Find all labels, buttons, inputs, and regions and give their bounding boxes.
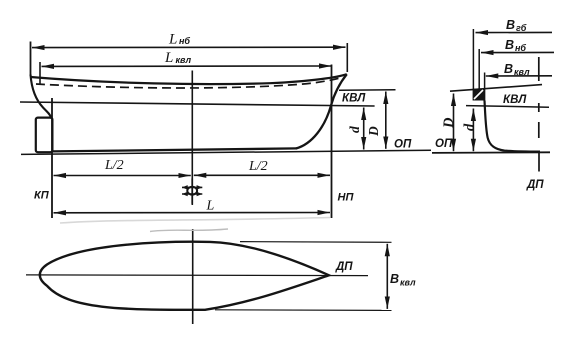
- svg-text:квл: квл: [514, 67, 530, 77]
- svg-text:L: L: [168, 32, 177, 48]
- svg-text:D: D: [441, 117, 457, 129]
- svg-text:нб: нб: [515, 43, 526, 53]
- svg-text:В: В: [504, 62, 513, 76]
- svg-text:d: d: [462, 123, 478, 131]
- svg-text:L/2: L/2: [248, 159, 268, 174]
- svg-text:ОП: ОП: [435, 138, 453, 150]
- svg-text:нб: нб: [179, 36, 190, 46]
- svg-text:ОП: ОП: [394, 139, 412, 151]
- svg-text:НП: НП: [338, 192, 355, 204]
- svg-text:квл: квл: [176, 55, 192, 65]
- svg-text:КВЛ: КВЛ: [342, 93, 366, 105]
- svg-text:В: В: [505, 38, 514, 52]
- svg-text:ДП: ДП: [335, 261, 353, 273]
- svg-text:D: D: [366, 126, 381, 137]
- svg-text:ДП: ДП: [526, 179, 544, 191]
- svg-text:КВЛ: КВЛ: [503, 94, 527, 106]
- svg-text:В: В: [390, 272, 399, 286]
- svg-text:гб: гб: [516, 23, 527, 33]
- svg-text:L: L: [206, 199, 215, 214]
- svg-text:КП: КП: [34, 190, 50, 202]
- svg-text:L/2: L/2: [104, 158, 124, 173]
- svg-text:В: В: [506, 18, 515, 32]
- svg-text:L: L: [164, 50, 173, 66]
- svg-text:квл: квл: [400, 278, 416, 288]
- svg-text:d: d: [347, 126, 362, 133]
